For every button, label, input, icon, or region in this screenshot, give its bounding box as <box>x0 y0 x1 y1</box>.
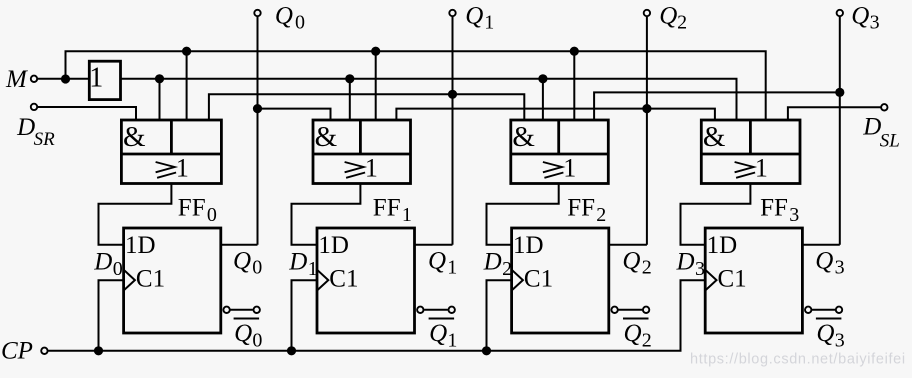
wire D_SR to gate G1 input <box>37 107 136 120</box>
flip-flop FF3 clock edge triangle <box>705 270 716 291</box>
svg-text:Q: Q <box>429 320 447 347</box>
gate G1 OR label geq-1 <box>156 153 189 182</box>
svg-text:1: 1 <box>484 11 494 33</box>
label Q0-bar <box>234 319 263 352</box>
input terminal D_SL <box>881 104 887 110</box>
svg-text:1: 1 <box>447 330 457 352</box>
svg-text:1: 1 <box>755 153 768 182</box>
svg-text:0: 0 <box>295 11 305 33</box>
node M rail junction cell0 <box>182 47 191 56</box>
svg-text:2: 2 <box>642 257 652 279</box>
node Q3 junction <box>835 88 844 97</box>
wire CP to FF1 clock <box>292 280 318 351</box>
flip-flop FF1 box <box>317 228 415 333</box>
wire Q2 vertical <box>646 17 648 245</box>
svg-text:3: 3 <box>835 330 845 352</box>
svg-text:Q: Q <box>234 320 252 347</box>
svg-text:Q: Q <box>815 248 833 275</box>
svg-text:FF: FF <box>760 194 788 221</box>
svg-text:D: D <box>16 114 35 141</box>
wire select input M-bar cell1 <box>349 79 351 120</box>
wire Q0 to gate G2 input <box>258 109 331 120</box>
svg-text:0: 0 <box>113 258 123 280</box>
svg-text:1: 1 <box>176 153 189 182</box>
svg-text:C1: C1 <box>329 266 358 293</box>
wire Q3 vertical <box>839 17 841 245</box>
svg-text:Q: Q <box>851 3 869 30</box>
output terminal Q2 <box>644 10 650 16</box>
label Q1-bar <box>429 319 458 352</box>
svg-text:0: 0 <box>252 330 262 352</box>
svg-text:C1: C1 <box>136 266 165 293</box>
flip-flop FF1 clock edge triangle <box>317 270 328 291</box>
node CP junction cell1 <box>287 346 296 355</box>
svg-text:3: 3 <box>695 258 705 280</box>
input terminal CP <box>41 348 47 354</box>
svg-text:3: 3 <box>789 204 799 226</box>
svg-text:FF: FF <box>178 194 206 221</box>
wire gate G4 output to FF3 D input <box>681 184 751 245</box>
svg-text:0: 0 <box>207 204 217 226</box>
and-or gate G1 box <box>121 120 221 184</box>
svg-text:D: D <box>862 114 881 141</box>
label Q2-bar <box>623 319 652 352</box>
gate G2 OR label geq-1 <box>345 153 378 182</box>
svg-text:1D: 1D <box>318 232 349 259</box>
wire M-bar rail with drop to G4 input <box>121 79 737 120</box>
svg-text:2: 2 <box>502 258 512 280</box>
wire CP to FF0 clock <box>99 280 124 351</box>
svg-text:&: & <box>315 121 338 153</box>
svg-text:D: D <box>483 249 502 276</box>
wire gate G2 output to FF1 D input <box>292 184 361 245</box>
svg-text:C1: C1 <box>718 266 747 293</box>
output terminal Q0 <box>254 10 260 16</box>
node M-bar rail junction cell2 <box>538 74 547 83</box>
wire Q2 to gates G2 and G4 inputs <box>396 109 715 120</box>
svg-text:1: 1 <box>563 153 576 182</box>
svg-text:Q: Q <box>428 248 446 275</box>
wire CP to FF2 clock <box>487 280 512 351</box>
svg-text:2: 2 <box>642 330 652 352</box>
svg-text:Q: Q <box>624 320 642 347</box>
svg-text:D: D <box>288 249 307 276</box>
svg-text:C1: C1 <box>524 266 553 293</box>
svg-text:FF: FF <box>373 194 401 221</box>
flip-flop FF2 box <box>512 228 609 333</box>
wire gate G1 output to FF0 D input <box>99 184 172 245</box>
flip-flop FF3 box <box>705 228 802 333</box>
svg-text:2: 2 <box>677 11 687 33</box>
svg-text:Q: Q <box>275 3 293 30</box>
and-or gate G4 box <box>701 120 800 184</box>
svg-text:1: 1 <box>447 257 457 279</box>
svg-text:Q: Q <box>465 3 483 30</box>
svg-text:0: 0 <box>252 257 262 279</box>
node Q2 junction <box>642 104 651 113</box>
wire M rail (top) with drop to G4 select input <box>66 51 766 120</box>
wire FF0 Q output <box>221 244 258 246</box>
wire select input M-bar cell2 <box>542 79 544 120</box>
wire select input M cell0 <box>186 51 188 120</box>
node M rail junction cell2 <box>570 47 579 56</box>
label Q3-bar <box>816 319 845 352</box>
output terminal Q1 <box>449 10 455 16</box>
svg-text:1: 1 <box>365 153 378 182</box>
svg-text:1: 1 <box>308 258 318 280</box>
flip-flop FF0 box <box>124 228 221 333</box>
svg-text:Q: Q <box>622 248 640 275</box>
svg-text:3: 3 <box>835 257 845 279</box>
wire Q0 vertical <box>257 17 259 245</box>
svg-text:&: & <box>512 121 535 153</box>
svg-text:FF: FF <box>567 194 595 221</box>
svg-text:1: 1 <box>89 63 103 94</box>
flip-flop FF0 clock edge triangle <box>124 270 135 291</box>
wire CP clock bus <box>48 280 706 351</box>
and-or gate G2 box <box>313 120 411 184</box>
wire M input to inverter <box>37 78 89 80</box>
svg-text:3: 3 <box>870 11 880 33</box>
svg-text:1D: 1D <box>125 232 156 259</box>
svg-text:1: 1 <box>402 204 412 226</box>
output terminal Q1-bar <box>417 307 455 313</box>
output terminal Q2-bar <box>611 307 649 313</box>
flip-flop FF2 clock edge triangle <box>512 270 523 291</box>
node M-bar rail junction cell1 <box>345 74 354 83</box>
wire select input M cell1 <box>375 51 377 120</box>
wire FF2 Q output <box>609 244 647 246</box>
svg-text:D: D <box>676 249 695 276</box>
svg-text:M: M <box>5 66 28 93</box>
node M rail junction cell1 <box>371 47 380 56</box>
svg-text:SR: SR <box>34 129 56 150</box>
wire D_SL to gate G4 input <box>788 107 881 120</box>
inverter U1 box <box>89 61 120 99</box>
svg-text:Q: Q <box>816 320 834 347</box>
gate G3 OR label geq-1 <box>543 153 576 182</box>
node Q1 junction <box>448 90 457 99</box>
svg-text:2: 2 <box>596 204 606 226</box>
output terminal Q0-bar <box>223 307 260 313</box>
wire Q1 vertical <box>452 17 454 245</box>
gate G4 OR label geq-1 <box>735 153 768 182</box>
svg-text:D: D <box>93 249 112 276</box>
svg-text:CP: CP <box>1 337 33 364</box>
svg-text:Q: Q <box>233 248 251 275</box>
svg-text:1D: 1D <box>707 232 738 259</box>
node CP junction cell2 <box>482 346 491 355</box>
wire Q3 to gate G3 input <box>594 92 840 120</box>
svg-text:Q: Q <box>659 3 677 30</box>
and-or gate G3 box <box>511 120 609 184</box>
wire select input M-bar cell0 <box>159 79 161 120</box>
output terminal Q3-bar <box>805 307 842 313</box>
input terminal M <box>31 76 37 82</box>
svg-text:&: & <box>123 121 146 153</box>
node M junction at inverter input <box>61 74 70 83</box>
wire gate G3 output to FF2 D input <box>487 184 559 245</box>
wire Q1 to gates G1 and G3 inputs <box>209 94 524 120</box>
wire FF1 Q output <box>415 244 453 246</box>
wire FF3 Q output <box>802 244 839 246</box>
svg-text:&: & <box>703 121 726 153</box>
node M-bar rail junction cell0 <box>155 74 164 83</box>
input terminal D_SR <box>31 104 37 110</box>
output terminal Q3 <box>837 10 843 16</box>
svg-text:https://blog.csdn.net/baiyifei: https://blog.csdn.net/baiyifeifei <box>690 352 906 368</box>
svg-text:1D: 1D <box>513 232 544 259</box>
node CP junction cell0 <box>94 346 103 355</box>
node Q0 junction <box>253 104 262 113</box>
svg-text:SL: SL <box>880 131 900 152</box>
wire select input M cell2 <box>573 51 575 120</box>
